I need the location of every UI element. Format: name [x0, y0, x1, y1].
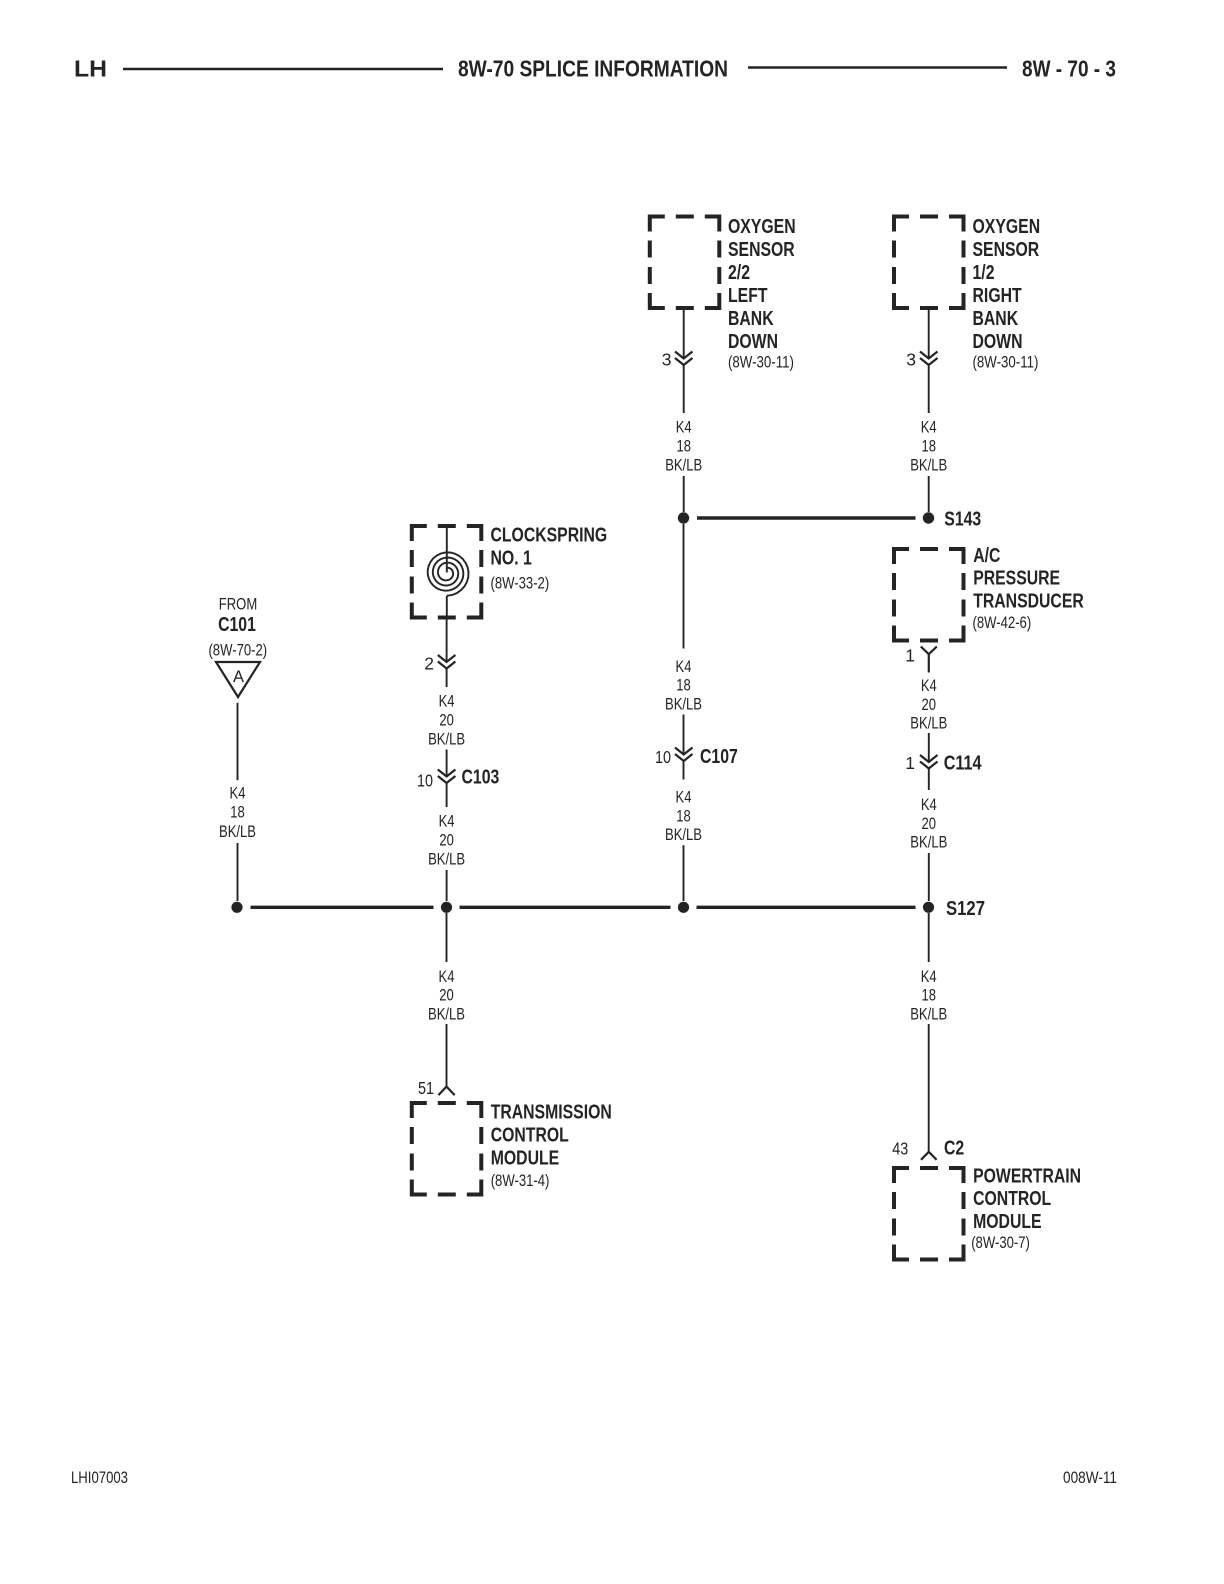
svg-text:BK/LB: BK/LB: [910, 456, 947, 474]
header rule left: [123, 68, 443, 71]
svg-text:BANK: BANK: [728, 308, 774, 330]
svg-text:C2: C2: [944, 1137, 964, 1159]
svg-text:CONTROL: CONTROL: [491, 1124, 569, 1146]
svg-text:OXYGEN: OXYGEN: [973, 216, 1041, 238]
wire from oxygen sensor 1/2 to connector: [928, 310, 930, 359]
svg-text:K4: K4: [921, 968, 937, 986]
svg-text:K4: K4: [921, 677, 937, 695]
wire K4 18 BK/LB (right O2 branch): [910, 365, 947, 512]
svg-text:3: 3: [662, 349, 672, 369]
svg-text:S143: S143: [944, 509, 981, 531]
component box A/C PRESSURE TRANSDUCER: [894, 545, 1084, 640]
svg-text:A: A: [233, 668, 244, 686]
svg-text:LH: LH: [74, 56, 107, 82]
svg-text:20: 20: [439, 712, 454, 730]
svg-text:DOWN: DOWN: [973, 331, 1023, 353]
TCM pin 51 fork: [418, 1078, 455, 1098]
svg-text:3: 3: [906, 349, 916, 369]
svg-text:(8W-70-2): (8W-70-2): [208, 642, 267, 660]
svg-text:2/2: 2/2: [728, 262, 750, 284]
svg-text:FROM: FROM: [219, 596, 257, 614]
svg-text:K4: K4: [921, 419, 937, 437]
in-line connector chevron pin 3 (left): [662, 349, 693, 369]
svg-text:BK/LB: BK/LB: [910, 834, 947, 852]
svg-text:MODULE: MODULE: [491, 1147, 560, 1169]
svg-text:18: 18: [676, 438, 691, 456]
connector C114 chevron pin 1: [905, 753, 982, 775]
svg-text:BK/LB: BK/LB: [665, 695, 702, 713]
clockspring coil symbol: [428, 524, 469, 620]
svg-text:C101: C101: [218, 614, 256, 636]
svg-text:TRANSDUCER: TRANSDUCER: [973, 590, 1084, 612]
connector C103 chevron pin 10: [417, 767, 499, 791]
svg-text:TRANSMISSION: TRANSMISSION: [491, 1101, 612, 1123]
svg-text:18: 18: [921, 438, 936, 456]
svg-text:BK/LB: BK/LB: [219, 823, 256, 841]
svg-text:RIGHT: RIGHT: [973, 285, 1022, 307]
svg-text:LHI07003: LHI07003: [71, 1468, 128, 1487]
wire K4 20 BK/LB (clockspring lower): [428, 783, 465, 901]
svg-text:K4: K4: [676, 658, 692, 676]
in-line connector chevron pin 2: [424, 653, 455, 673]
wire S127 to PCM (K4 18 BK/LB): [910, 913, 947, 1152]
svg-text:OXYGEN: OXYGEN: [728, 216, 796, 238]
svg-text:PRESSURE: PRESSURE: [973, 567, 1060, 589]
svg-text:NO. 1: NO. 1: [491, 548, 532, 570]
svg-text:20: 20: [922, 696, 937, 714]
svg-text:1/2: 1/2: [973, 262, 995, 284]
svg-text:8W-70 SPLICE INFORMATION: 8W-70 SPLICE INFORMATION: [458, 56, 728, 82]
svg-text:POWERTRAIN: POWERTRAIN: [973, 1166, 1081, 1188]
svg-text:A/C: A/C: [973, 545, 1000, 567]
svg-text:BK/LB: BK/LB: [428, 1006, 465, 1024]
component box POWERTRAIN CONTROL MODULE: [894, 1166, 1081, 1260]
svg-text:BK/LB: BK/LB: [910, 715, 947, 733]
svg-text:SENSOR: SENSOR: [728, 239, 795, 261]
svg-text:18: 18: [676, 677, 691, 695]
in-line connector chevron pin 3 (right): [906, 349, 937, 369]
component box OXYGEN SENSOR 2/2 LEFT BANK DOWN: [650, 216, 796, 371]
svg-text:18: 18: [921, 987, 936, 1005]
splice S127: [231, 898, 985, 920]
svg-text:10: 10: [655, 747, 671, 767]
svg-text:K4: K4: [676, 419, 692, 437]
svg-text:43: 43: [892, 1138, 908, 1158]
svg-text:K4: K4: [439, 813, 455, 831]
svg-text:C103: C103: [462, 767, 500, 789]
svg-text:(8W-42-6): (8W-42-6): [973, 614, 1032, 632]
svg-text:K4: K4: [439, 968, 455, 986]
wire K4 20 BK/LB (A/C upper): [910, 677, 947, 762]
wire from clockspring to connector pin 2: [446, 620, 448, 663]
svg-text:51: 51: [418, 1078, 434, 1098]
svg-text:K4: K4: [676, 789, 692, 807]
header rule right: [748, 66, 1007, 69]
svg-text:LEFT: LEFT: [728, 285, 768, 307]
svg-text:8W - 70 - 3: 8W - 70 - 3: [1022, 56, 1116, 82]
svg-text:(8W-33-2): (8W-33-2): [491, 575, 550, 593]
svg-text:1: 1: [905, 646, 915, 666]
component box CLOCKSPRING NO. 1: [412, 525, 607, 618]
svg-text:SENSOR: SENSOR: [973, 239, 1040, 261]
svg-text:C107: C107: [700, 746, 738, 768]
wire K4 18 BK/LB (left O2 branch): [665, 365, 702, 512]
A/C transducer pin 1 fork: [905, 646, 937, 673]
svg-text:C114: C114: [944, 753, 983, 775]
svg-text:BK/LB: BK/LB: [665, 456, 702, 474]
wire S127 to TCM (K4 20 BK/LB): [428, 913, 465, 1087]
svg-text:10: 10: [417, 771, 433, 791]
svg-text:K4: K4: [230, 785, 246, 803]
wire K4 20 BK/LB (clockspring upper): [428, 669, 465, 777]
node FROM C101: [208, 596, 267, 660]
svg-text:BK/LB: BK/LB: [428, 731, 465, 749]
svg-text:(8W-31-4): (8W-31-4): [491, 1172, 550, 1190]
svg-text:2: 2: [424, 653, 434, 673]
svg-text:CLOCKSPRING: CLOCKSPRING: [491, 525, 608, 547]
svg-text:K4: K4: [921, 796, 937, 814]
wire K4 18 BK/LB (from C101): [219, 703, 256, 901]
connector C107 chevron pin 10: [655, 746, 738, 768]
wire S143 to C107 (K4 18 BK/LB): [665, 524, 702, 755]
svg-text:K4: K4: [439, 693, 455, 711]
svg-text:S127: S127: [946, 898, 985, 920]
svg-text:BK/LB: BK/LB: [428, 851, 465, 869]
svg-text:(8W-30-7): (8W-30-7): [971, 1234, 1030, 1252]
wire C107 to S127 (K4 18 BK/LB): [665, 761, 702, 901]
svg-text:(8W-30-11): (8W-30-11): [728, 353, 794, 371]
splice S143: [678, 509, 981, 531]
svg-text:MODULE: MODULE: [973, 1211, 1042, 1233]
wire from oxygen sensor 2/2 to connector: [683, 310, 685, 359]
svg-text:20: 20: [439, 832, 454, 850]
component box TRANSMISSION CONTROL MODULE: [412, 1101, 612, 1194]
PCM connector C2 pin 43 fork: [892, 1137, 964, 1159]
svg-text:CONTROL: CONTROL: [973, 1188, 1051, 1210]
svg-text:008W-11: 008W-11: [1063, 1468, 1117, 1487]
svg-text:(8W-30-11): (8W-30-11): [973, 353, 1039, 371]
svg-text:18: 18: [676, 807, 691, 825]
off-page arrow A: [216, 662, 260, 697]
svg-text:20: 20: [439, 987, 454, 1005]
svg-text:18: 18: [230, 804, 245, 822]
svg-text:BK/LB: BK/LB: [910, 1006, 947, 1024]
svg-text:20: 20: [922, 815, 937, 833]
svg-text:DOWN: DOWN: [728, 331, 778, 353]
wire C114 to S127 (K4 20 BK/LB): [910, 769, 947, 902]
svg-text:BK/LB: BK/LB: [665, 826, 702, 844]
svg-text:1: 1: [905, 753, 915, 773]
component box OXYGEN SENSOR 1/2 RIGHT BANK DOWN: [894, 216, 1040, 371]
svg-text:BANK: BANK: [973, 308, 1019, 330]
